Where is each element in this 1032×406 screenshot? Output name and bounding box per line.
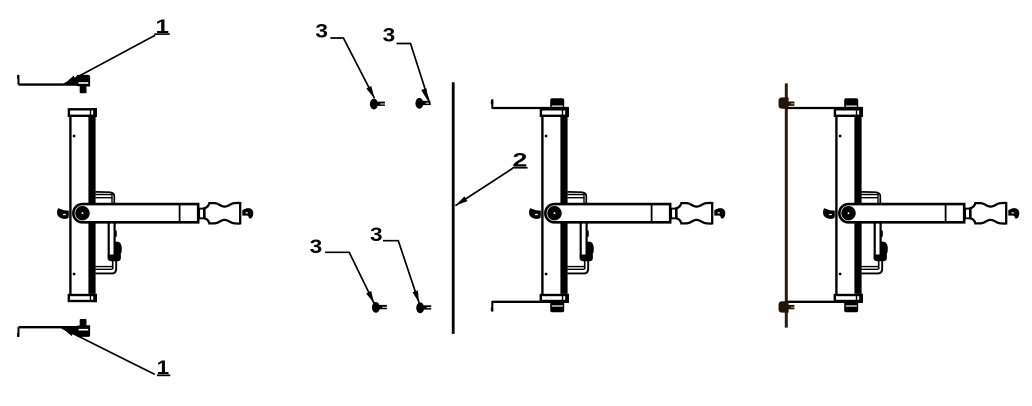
bracket 1 bottom: screw stub [80, 319, 87, 326]
label 1 bottom leader [62, 328, 155, 375]
svg-text:3: 3 [310, 236, 323, 258]
label 3 top-left leader [330, 38, 374, 98]
label 1 top leader wedge [64, 77, 78, 85]
screw 3 top-right [415, 98, 430, 109]
bracket 1 top: end hook [18, 75, 20, 84]
bracket 1 bottom: rail line [19, 326, 91, 328]
bracket 1 bottom: end hook [18, 327, 20, 336]
bottom thumb screw through panel [779, 301, 789, 312]
panel edge line 2 [452, 82, 455, 334]
label 3 bottom-left leader [325, 252, 374, 303]
installed bracket top [786, 98, 863, 108]
svg-text:3: 3 [315, 21, 328, 43]
installed bracket bottom [492, 302, 569, 313]
svg-text:1: 1 [156, 16, 170, 38]
screw 3 bottom-right [416, 302, 431, 313]
bracket 1 top: screw stub [80, 87, 87, 94]
bracket 1 bottom: clamp block [70, 325, 90, 337]
bottom bracket hook [491, 301, 493, 312]
bracket 1 top: clamp block [70, 75, 90, 87]
label 2 leader [455, 168, 512, 205]
screw 3 top-left [370, 99, 385, 110]
clamp device left view [57, 108, 253, 302]
clamp device middle view [529, 108, 725, 302]
svg-text:3: 3 [370, 224, 383, 246]
bracket 1 top: rail line [19, 83, 91, 85]
top thumb screw through panel [779, 97, 789, 108]
label 3 bottom-right leader [383, 241, 419, 304]
label 1 top leader [64, 35, 155, 84]
clamp device right view [823, 108, 1019, 302]
label 1 bottom leader wedge [62, 327, 78, 336]
installed bracket bottom [786, 302, 863, 313]
screw 3 bottom-left [372, 302, 387, 313]
svg-text:3: 3 [383, 25, 396, 47]
top bracket hook [491, 99, 493, 109]
panel edge (clamped) [785, 83, 788, 327]
installed bracket top [492, 98, 569, 108]
label 3 top-right leader [397, 44, 431, 105]
